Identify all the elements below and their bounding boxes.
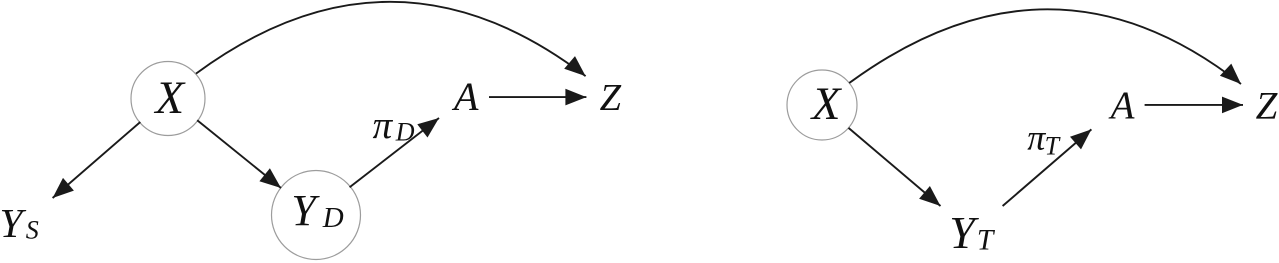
svg-text:D: D xyxy=(395,117,415,146)
svg-text:Z: Z xyxy=(600,77,622,119)
svg-text:T: T xyxy=(977,224,996,256)
svg-text:A: A xyxy=(1108,84,1135,127)
svg-text:D: D xyxy=(322,202,344,234)
svg-text:π: π xyxy=(373,104,394,147)
svg-text:X: X xyxy=(153,72,186,124)
svg-text:Z: Z xyxy=(1256,85,1279,128)
svg-text:X: X xyxy=(810,78,843,130)
svg-text:Y: Y xyxy=(291,186,320,235)
svg-text:T: T xyxy=(1045,132,1061,161)
svg-text:Y: Y xyxy=(949,207,979,258)
svg-text:A: A xyxy=(451,74,479,119)
svg-text:Y: Y xyxy=(0,200,27,246)
svg-text:S: S xyxy=(26,215,39,244)
svg-text:π: π xyxy=(1027,118,1046,158)
